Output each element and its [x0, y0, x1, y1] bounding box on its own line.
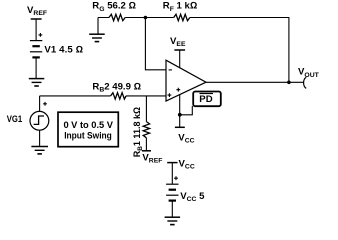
svg-text:Input Swing: Input Swing: [64, 131, 112, 141]
svg-text:PD: PD: [199, 94, 212, 105]
svg-text:0 V to 0.5 V: 0 V to 0.5 V: [63, 120, 113, 130]
svg-text:RG 56.2 Ω: RG 56.2 Ω: [92, 1, 136, 13]
svg-text:V1 4.5 Ω: V1 4.5 Ω: [44, 45, 83, 56]
svg-text:VG1: VG1: [7, 114, 23, 125]
svg-text:RF 1 kΩ: RF 1 kΩ: [163, 1, 197, 13]
